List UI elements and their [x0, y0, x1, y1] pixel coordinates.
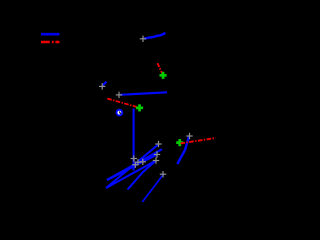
- node green plus filled G1: [160, 72, 167, 79]
- wire blue fan line F2: [107, 149, 162, 180]
- node grey plus marker P5: [160, 171, 166, 177]
- node grey plus marker P2: [154, 151, 160, 157]
- wire blue fan line F3: [107, 155, 157, 181]
- legend blue solid line: [41, 33, 60, 36]
- node blue robot circle marker: [116, 109, 124, 117]
- node grey plus marker S: [99, 83, 105, 89]
- node grey plus marker C3: [132, 162, 138, 168]
- wire blue vertical line V: [133, 109, 135, 171]
- wire red dash-dot line R3: [181, 138, 216, 143]
- wire blue steep thin line F6: [142, 174, 163, 202]
- wire blue fan line F4: [106, 161, 156, 189]
- legend red dash-dot line: [41, 41, 60, 44]
- wire blue polyline L7: [177, 137, 189, 165]
- node grey plus marker H: [116, 92, 122, 98]
- node green plus filled G2: [136, 104, 143, 111]
- wire blue steep line F5: [128, 161, 156, 190]
- wire blue horizontal line H: [120, 92, 167, 95]
- wire red dash-dot line R1: [158, 63, 163, 75]
- wire blue path segment top: [144, 33, 166, 39]
- wire blue fan line F1: [106, 144, 159, 188]
- node grey plus marker C2: [140, 159, 146, 165]
- node grey plus marker P7: [186, 133, 192, 139]
- wire small blue segment left: [103, 82, 107, 86]
- node grey plus marker T: [140, 36, 146, 42]
- node grey plus marker P1: [155, 141, 161, 147]
- node grey plus marker C4: [131, 155, 137, 161]
- node grey plus marker C1: [135, 159, 141, 165]
- node green plus filled G3: [176, 139, 183, 146]
- node grey plus marker P2b: [153, 157, 159, 163]
- wire red dash-dot line R2: [107, 99, 136, 107]
